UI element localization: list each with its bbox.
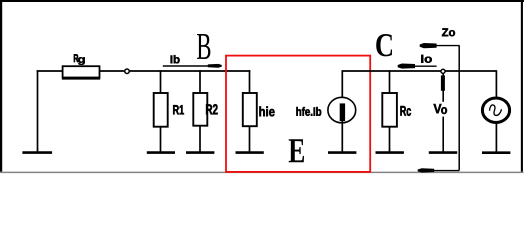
resistor Rc (382, 93, 397, 127)
label R2 (206, 104, 218, 114)
wire R2 bottom (199, 126, 201, 152)
ground Vo (429, 151, 457, 154)
wire source vertical (37, 70, 39, 151)
wire hie top (249, 70, 251, 93)
wire Zo vertical (458, 46, 460, 171)
wire R1 bottom (160, 127, 162, 152)
wire to Rg (37, 70, 63, 72)
wire AC top (495, 70, 497, 97)
arrow Zo (420, 43, 460, 48)
resistor R2 (193, 93, 207, 126)
label Rc (400, 106, 411, 116)
label hfe.Ib (296, 107, 321, 116)
ground R1 (147, 151, 175, 154)
node label C (collector) (376, 34, 392, 56)
label hie (259, 106, 274, 116)
wire current source top (341, 70, 343, 104)
current source arrow bar (340, 103, 345, 121)
label Ib (171, 55, 180, 63)
label Io (421, 55, 432, 63)
wire output down (442, 74, 444, 152)
node label B (base) (197, 34, 210, 59)
ground Rc (376, 151, 404, 154)
wire AC bottom (495, 123, 497, 152)
border frame (0, 0, 524, 172)
label Vo backing (433, 102, 450, 117)
AC source / load circle (482, 98, 509, 123)
arrow Ib (163, 64, 222, 68)
resistor hie (243, 93, 257, 126)
node input junction (125, 69, 130, 74)
wire R1 top (160, 70, 162, 93)
arrow Io (398, 64, 437, 69)
wire current source bottom (341, 121, 343, 152)
wire node to hie (129, 70, 250, 72)
red box transistor model (226, 56, 370, 172)
arrow Vo bar (441, 75, 445, 90)
AC sine symbol (490, 105, 502, 115)
label Zo (442, 28, 455, 36)
ground R2 (186, 151, 214, 154)
wire Rc bottom (389, 127, 391, 152)
wire hie bottom (249, 126, 251, 151)
arrow bottom of Zo line (418, 168, 460, 172)
ground current source (328, 151, 356, 154)
wire R2 top (199, 70, 201, 93)
resistor R1 (154, 93, 168, 127)
node output junction (441, 69, 445, 73)
node label E (emitter) (289, 139, 304, 162)
wire Rc top (389, 70, 391, 93)
wire Rg to node (99, 70, 124, 72)
wire collector horizontal (342, 70, 496, 72)
resistor Rg bottom edge (62, 77, 100, 80)
label R1 (173, 105, 184, 114)
ground source (22, 151, 52, 154)
label Vo (434, 104, 442, 113)
resistor Rg (63, 66, 100, 77)
ground AC (482, 151, 510, 154)
ground hie (236, 151, 264, 154)
current source hfe.Ib circle (328, 97, 356, 123)
label Rg (74, 54, 78, 62)
